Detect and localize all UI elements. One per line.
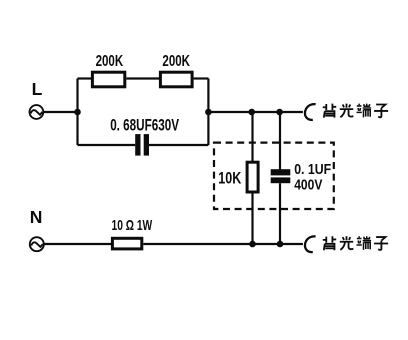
AC source N (30, 237, 44, 251)
wire left vertical riser (76, 79, 78, 146)
wire 10K bottom lead (251, 194, 253, 245)
wire 10K top lead (251, 112, 253, 161)
svg-text:0. 68UF630V: 0. 68UF630V (110, 115, 179, 134)
AC source L (30, 105, 44, 119)
svg-text:0. 1UF: 0. 1UF (294, 161, 331, 178)
node D junction dot (276, 109, 283, 116)
svg-text:200K: 200K (96, 53, 124, 70)
label backlight terminal top (323, 104, 388, 118)
resistor R2 200K (160, 72, 192, 87)
dashed box (214, 143, 334, 209)
wire N source to R4 (44, 243, 111, 245)
svg-text:10 Ω 1W: 10 Ω 1W (112, 217, 153, 234)
resistor R1 200K (92, 72, 124, 87)
wire L source to node A (43, 111, 78, 113)
svg-text:N: N (30, 207, 43, 227)
terminal arc bottom (305, 236, 316, 252)
wire C2 top lead (279, 112, 281, 170)
svg-text:10K: 10K (218, 168, 242, 187)
resistor R3 10K (247, 162, 258, 192)
wire top output line (208, 111, 303, 113)
wire capacitor branch left (78, 144, 136, 146)
wire C2 bottom lead (279, 183, 281, 244)
wire bottom output line (143, 243, 303, 245)
terminal arc top (305, 104, 316, 120)
capacitor C1 0.68UF plates (135, 134, 149, 156)
node F junction dot (277, 241, 284, 248)
svg-text:200K: 200K (162, 53, 190, 70)
node A junction dot (74, 109, 81, 116)
wire capacitor branch right (149, 144, 208, 146)
wire between R1 and R2 (126, 77, 159, 79)
capacitor C2 0.1UF plates (271, 169, 291, 183)
node B junction dot (205, 109, 212, 116)
wire top branch right (194, 77, 209, 79)
label backlight terminal bottom (323, 236, 388, 250)
resistor R4 10ohm 1W (112, 238, 141, 249)
node C junction dot (248, 109, 255, 116)
svg-text:L: L (32, 79, 43, 99)
node E junction dot (249, 241, 256, 248)
wire top branch left (78, 77, 93, 79)
wire right vertical riser (207, 79, 209, 146)
svg-text:400V: 400V (294, 177, 322, 194)
